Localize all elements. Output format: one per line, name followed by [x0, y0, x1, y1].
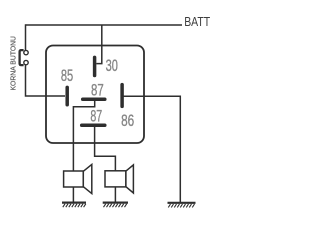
- wire pin 87 lower to right horn: [95, 127, 116, 171]
- svg-text:BATT: BATT: [184, 14, 210, 29]
- relay box U1: [46, 46, 144, 144]
- svg-text:87: 87: [90, 107, 102, 125]
- wire from button to pin 85: [26, 65, 66, 96]
- switch S1 horn button (KORNA BUTONU): [20, 50, 29, 65]
- wire horn H2 to ground: [114, 187, 116, 202]
- wire from BATT corner down to horn button: [25, 24, 27, 50]
- terminal pin 86: [120, 85, 124, 107]
- horn H1 cone: [83, 164, 92, 193]
- ground right rail: [168, 203, 196, 208]
- wire pin 87 upper to left horn: [73, 100, 94, 171]
- ground under horn H1: [62, 203, 86, 208]
- svg-text:30: 30: [106, 57, 118, 75]
- horn H1 (left) body: [64, 171, 84, 187]
- wire horn H1 to ground: [72, 187, 74, 202]
- terminal pin 30: [93, 57, 97, 75]
- svg-text:KORNA BUTONU: KORNA BUTONU: [11, 36, 18, 91]
- terminal pin 85: [65, 87, 69, 104]
- terminal pin 87 upper: [83, 97, 105, 101]
- wire pin 86 to right ground rail: [124, 96, 181, 202]
- wire from BATT line down to pin 30: [96, 25, 102, 64]
- svg-text:87: 87: [91, 82, 104, 100]
- contact circle bottom: [24, 60, 28, 64]
- wire BATT feed (horizontal top): [26, 24, 183, 26]
- contact circle top: [24, 50, 28, 54]
- ground under horn H2: [103, 203, 128, 208]
- horn H2 cone: [126, 165, 133, 193]
- svg-text:86: 86: [121, 112, 134, 130]
- horn H2 (right) body: [105, 171, 126, 187]
- button actuator bracket: [20, 50, 24, 65]
- svg-text:85: 85: [61, 67, 73, 85]
- terminal pin 87 lower: [82, 123, 105, 127]
